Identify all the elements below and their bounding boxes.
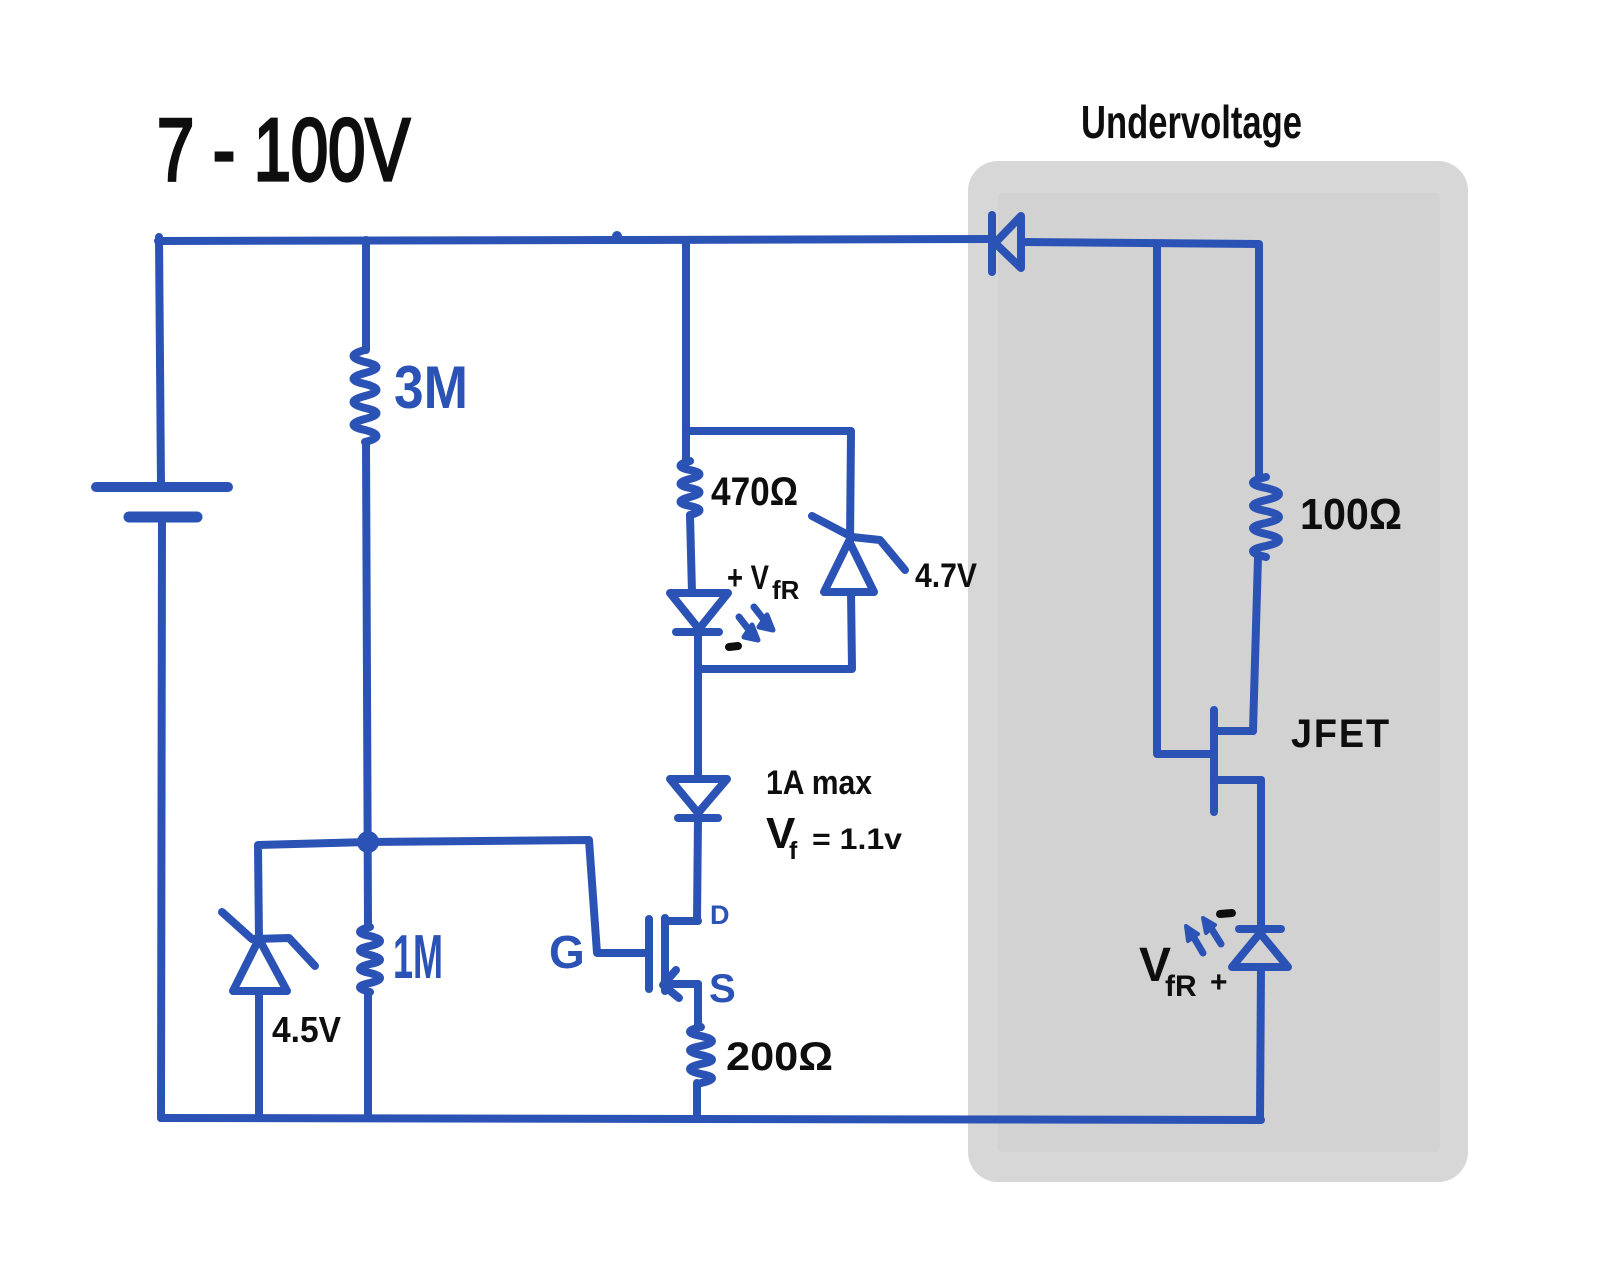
svg-text:+: + xyxy=(1210,966,1228,999)
wire: LED D1 to junction xyxy=(694,632,702,669)
label D2 rating 1A max xyxy=(766,764,872,802)
svg-text:1A max: 1A max xyxy=(766,764,872,802)
wire: node A to gate of Q1 xyxy=(368,840,646,953)
svg-text:100Ω: 100Ω xyxy=(1300,490,1402,539)
svg-text:4.7V: 4.7V xyxy=(915,557,977,595)
svg-text:S: S xyxy=(709,967,736,1011)
wire: divider branch top xyxy=(362,240,370,350)
wire: branch split to zener D6 xyxy=(686,431,851,544)
label: minus sign below VfR xyxy=(729,646,738,647)
LED D1 light arrows xyxy=(739,607,773,640)
wire: top rail xyxy=(158,239,990,241)
transistor Q1 MOSFET xyxy=(649,918,698,998)
label: plus sign below diode D4 xyxy=(1210,966,1228,999)
zener diode D6 4.7V xyxy=(812,516,905,592)
wire: 470R to LED D1 xyxy=(690,515,692,593)
LED D1 xyxy=(670,593,728,632)
label D6 value 4.7V xyxy=(915,557,977,595)
wire: junction down to diode D2 xyxy=(694,669,702,779)
label: VfR across diode D4 xyxy=(1139,939,1197,1003)
diode D4 light arrows xyxy=(1186,918,1221,953)
svg-text:JFET: JFET xyxy=(1291,712,1391,756)
label: minus sign above diode D4 xyxy=(1220,913,1232,914)
wire: left rail lower (battery -) xyxy=(161,517,162,1118)
wire: zener D6 anode to junction xyxy=(698,592,852,669)
pin label S (source) xyxy=(709,967,736,1011)
transistor Q2 JFET xyxy=(1214,710,1261,812)
svg-text:1M: 1M xyxy=(393,923,443,992)
label R4 value 200ohm xyxy=(726,1035,833,1079)
label D5 value 4.5V xyxy=(272,1009,341,1050)
wire: node A to zener D5 xyxy=(258,842,368,941)
wire: divider bottom segment xyxy=(364,992,372,1118)
wire: source of Q2 to diode D4 xyxy=(1257,780,1265,929)
wire: diode D2 to drain of Q1 xyxy=(697,818,698,921)
diode D2 series 1A xyxy=(670,779,727,818)
svg-text:G: G xyxy=(549,926,585,978)
label: + VfR across LED xyxy=(727,559,800,605)
resistor R1 3M xyxy=(354,350,377,442)
undervoltage shaded region box xyxy=(968,161,1468,1182)
pin label D (drain) xyxy=(710,900,730,930)
label R3 value 470ohm xyxy=(711,470,798,514)
wire: 200R to bottom rail xyxy=(693,1083,701,1118)
svg-text:fR: fR xyxy=(1165,970,1197,1003)
node A: divider junction dot xyxy=(357,831,379,853)
wire: divider middle segment xyxy=(366,442,368,927)
zener diode D5 4.5V xyxy=(222,912,315,991)
diode D4 VfR (pointing up) xyxy=(1232,929,1288,967)
wire: diode D4 anode to bottom rail xyxy=(1260,967,1261,1120)
svg-text:470Ω: 470Ω xyxy=(711,470,798,514)
wire: zener D5 anode to bottom rail xyxy=(255,991,263,1118)
label D2 Vf = 1.1v xyxy=(766,809,902,865)
resistor R2 1M xyxy=(360,927,380,992)
label R5 value 100ohm xyxy=(1300,490,1402,539)
svg-text:+ V: + V xyxy=(727,559,769,597)
label R2 value 1M xyxy=(393,923,443,992)
wire: JFET gate drop line xyxy=(1157,244,1212,754)
wire: diode D3 to 100R branch xyxy=(1021,242,1259,477)
label R1 value 3M xyxy=(394,354,468,421)
svg-text:fR: fR xyxy=(772,575,800,605)
svg-text:4.5V: 4.5V xyxy=(272,1009,341,1050)
pin label G (gate) xyxy=(549,926,585,978)
svg-text:3M: 3M xyxy=(394,354,468,421)
svg-text:= 1.1v: = 1.1v xyxy=(812,823,902,856)
svg-text:f: f xyxy=(789,837,798,865)
svg-text:200Ω: 200Ω xyxy=(726,1035,833,1079)
junction: top rail stroke-join nub xyxy=(612,231,622,241)
svg-text:7 - 100V: 7 - 100V xyxy=(157,100,410,199)
svg-text:Undervoltage: Undervoltage xyxy=(1081,96,1302,148)
resistor R5 100R xyxy=(1253,477,1279,557)
resistor R3 470R xyxy=(681,431,700,515)
wire: left rail upper (battery +) xyxy=(159,237,161,486)
resistor R4 200R xyxy=(690,1027,712,1083)
wire: bottom rail xyxy=(161,1118,1261,1120)
battery V1 xyxy=(96,487,228,517)
svg-text:D: D xyxy=(710,900,730,930)
label Q2 JFET xyxy=(1291,712,1391,756)
diode D3 (top, pointing left) xyxy=(992,215,1021,272)
label: supply voltage 7-100V xyxy=(157,100,410,199)
label: Undervoltage section title xyxy=(1081,96,1302,148)
wire: top rail to 470R branch xyxy=(682,240,690,431)
wire: 100R to drain of Q2 xyxy=(1253,557,1258,731)
wire: source of Q1 to 200R xyxy=(694,984,702,1027)
